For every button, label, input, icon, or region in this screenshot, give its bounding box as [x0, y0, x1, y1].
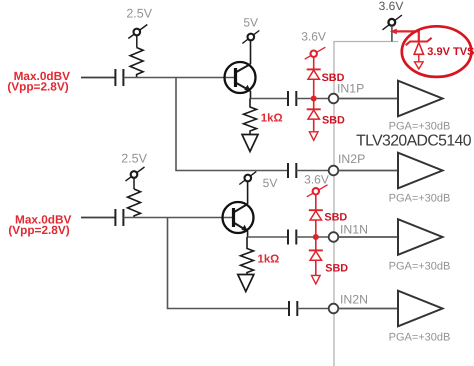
connector J7 3.6V	[307, 185, 328, 197]
wire C2 to IN1P pin	[296, 98, 328, 100]
svg-text:1kΩ: 1kΩ	[261, 113, 283, 125]
svg-text:IN1P: IN1P	[337, 81, 364, 95]
svg-text:(Vpp=2.8V): (Vpp=2.8V)	[7, 80, 68, 94]
connector J4 3.6V	[383, 15, 403, 30]
pin IN2N	[329, 304, 339, 314]
wire input 2	[81, 217, 115, 219]
svg-text:PGA=+30dB: PGA=+30dB	[389, 332, 451, 344]
svg-text:3.9V TVS: 3.9V TVS	[427, 46, 474, 58]
wire C3 to IN2P pin	[296, 170, 328, 172]
wire node A to IN2P branch	[176, 78, 288, 171]
wire node B to IN2N branch	[168, 218, 290, 309]
transistor Q1	[225, 40, 256, 98]
op-amp PGA2	[398, 153, 443, 189]
op-amp PGA3	[398, 219, 443, 255]
resistor R4 1k	[241, 237, 254, 275]
svg-text:3.6V: 3.6V	[379, 0, 404, 13]
chip boundary rail (TLV320ADC5140 edge)	[334, 42, 398, 366]
capacitor C5	[288, 230, 296, 245]
ground arrow (TVS)	[415, 62, 424, 69]
wire C5 to IN1N pin	[296, 236, 329, 238]
capacitor C6 (IN2N)	[289, 301, 297, 316]
wire SBD chain 2 lower	[315, 237, 317, 275]
wire SBD chain 1 lower	[313, 99, 315, 132]
svg-text:1kΩ: 1kΩ	[258, 253, 280, 265]
wire Q2 emitter to C5	[248, 236, 288, 238]
connector J5 2.5V	[126, 167, 145, 189]
ground (R2)	[242, 135, 258, 152]
wire SBD chain 1 upper	[313, 57, 315, 99]
diode D1 SBD	[307, 69, 321, 79]
wire IN1N to PGA3	[338, 236, 398, 238]
svg-text:SBD: SBD	[322, 115, 345, 127]
connector J1 2.5V	[128, 25, 147, 48]
junction dot IN1N	[313, 234, 319, 240]
label Max.0dBV input 2	[8, 212, 71, 237]
connector J6 5V	[239, 172, 256, 185]
diode D2 SBD	[307, 109, 321, 119]
diode D3 SBD	[309, 210, 323, 220]
pin IN1P	[329, 94, 339, 104]
svg-text:2.5V: 2.5V	[121, 152, 147, 166]
junction dot IN1P	[311, 96, 317, 102]
connector J2 5V	[242, 31, 259, 44]
resistor R1 (2.5V pull-up)	[130, 48, 143, 78]
transistor Q2	[223, 181, 254, 237]
wire C6 to IN2N pin	[297, 308, 329, 310]
wire Q1 emitter to C2	[251, 98, 289, 100]
wire IN2N to PGA4	[338, 308, 398, 310]
svg-text:PGA=+30dB: PGA=+30dB	[389, 261, 451, 273]
svg-text:PGA=+30dB: PGA=+30dB	[389, 193, 451, 205]
ground arrow (SBD chain 1)	[309, 132, 318, 141]
annotation ellipse around TVS	[402, 26, 472, 77]
svg-text:TLV320ADC5140: TLV320ADC5140	[356, 133, 472, 150]
pin IN1N	[329, 232, 339, 242]
resistor R3 (2.5V pull-up)	[128, 189, 141, 218]
wire C1 to Q1 base	[123, 77, 236, 79]
wire J4 to rail	[391, 26, 393, 42]
capacitor C2	[288, 91, 296, 106]
svg-text:PGA=+30dB: PGA=+30dB	[389, 121, 451, 133]
resistor R2 1k	[244, 99, 257, 135]
capacitor C1	[115, 69, 123, 86]
diode D4 SBD	[309, 250, 323, 260]
wire C4 to Q2 base	[123, 217, 233, 219]
svg-text:(Vpp=2.8V): (Vpp=2.8V)	[8, 223, 69, 237]
svg-text:5V: 5V	[243, 15, 258, 29]
TVS annotation arrow	[396, 31, 419, 40]
pin IN2P	[329, 166, 339, 176]
diode TVS 3.9V	[406, 38, 432, 62]
ground (R4)	[238, 275, 254, 292]
wire IN2P to PGA2	[338, 170, 398, 172]
wire IN1P to PGA1	[338, 98, 398, 100]
svg-text:5V: 5V	[263, 176, 278, 190]
op-amp PGA1	[398, 81, 443, 117]
ground arrow (SBD chain 2)	[312, 275, 321, 284]
svg-text:IN2N: IN2N	[340, 293, 368, 307]
svg-text:3.6V: 3.6V	[301, 30, 326, 44]
svg-text:IN2P: IN2P	[338, 152, 365, 166]
op-amp PGA4	[398, 291, 443, 327]
capacitor C4	[115, 209, 123, 226]
svg-text:IN1N: IN1N	[340, 223, 368, 237]
label Max.0dBV input 1	[7, 69, 70, 94]
svg-text:3.6V: 3.6V	[304, 172, 329, 186]
wire input 1	[81, 77, 115, 79]
connector J3 3.6V	[305, 47, 326, 59]
wire SBD chain 2 upper	[315, 195, 317, 238]
capacitor C3 (IN2P)	[288, 163, 296, 178]
svg-text:SBD: SBD	[325, 263, 348, 275]
svg-text:2.5V: 2.5V	[126, 6, 152, 20]
